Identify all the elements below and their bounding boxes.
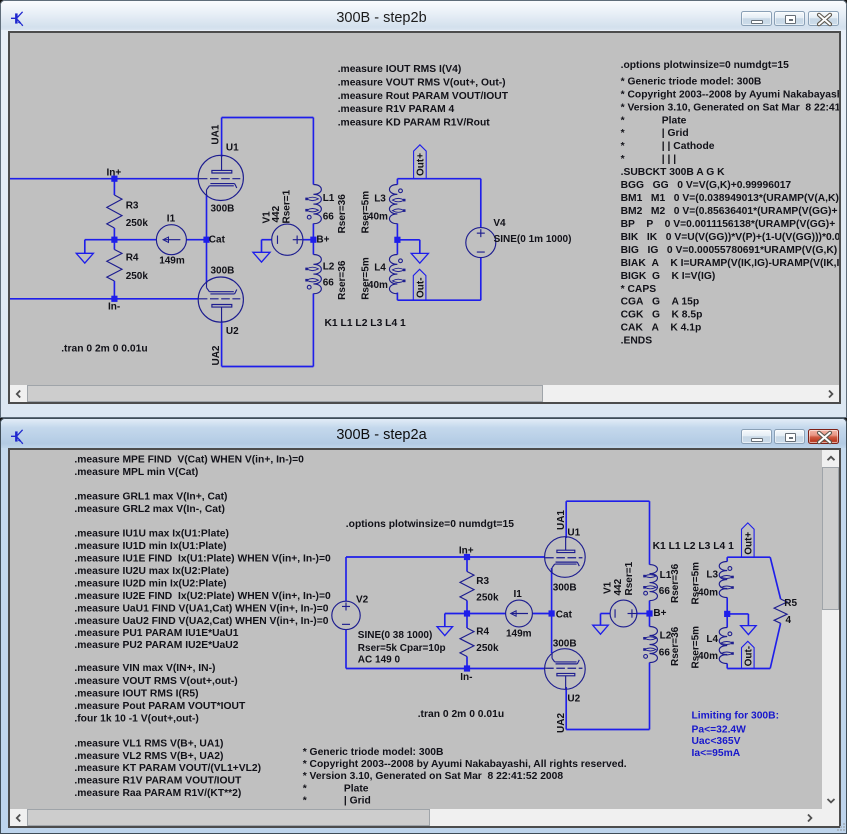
wire R3 bottom lead	[113, 228, 115, 240]
svg-text:Rser=5m: Rser=5m	[361, 257, 372, 300]
svg-text:UA2: UA2	[211, 345, 222, 365]
svg-text:.measure VOUT RMS V(out+,out-): .measure VOUT RMS V(out+,out-)	[74, 676, 237, 687]
svg-text:Rser=36: Rser=36	[670, 626, 681, 666]
wire rail down to L1 2	[649, 501, 651, 564]
wire rail down to L1	[312, 118, 314, 185]
svg-text:Rser=1: Rser=1	[281, 189, 292, 223]
inductor L4	[389, 255, 397, 294]
wire V2 top lead	[345, 557, 347, 601]
svg-text:UA1: UA1	[211, 124, 222, 144]
svg-text:.options plotwinsize=0 numdgt=: .options plotwinsize=0 numdgt=15	[621, 60, 789, 71]
svg-text:Cat: Cat	[556, 610, 573, 621]
core marks L3 2	[721, 576, 733, 579]
inductor L3 2	[719, 562, 727, 598]
wire R4 bottom lead 2	[466, 657, 468, 669]
svg-text:149m: 149m	[506, 629, 532, 640]
svg-text:.measure Rout PARAM VOUT/IOUT: .measure Rout PARAM VOUT/IOUT	[338, 91, 509, 102]
svg-text:V4: V4	[493, 218, 506, 229]
wire R5 bottom diagonal	[770, 623, 780, 668]
svg-text:.measure KT PARAM VOUT/(VL1+VL: .measure KT PARAM VOUT/(VL1+VL2)	[74, 763, 261, 774]
wire L3 bottom lead	[396, 224, 398, 240]
wire L3 bottom lead 2	[726, 598, 728, 614]
inductor L2 2	[650, 627, 658, 663]
svg-text:Out+: Out+	[743, 532, 754, 555]
svg-text:R5: R5	[784, 598, 797, 609]
grid (dashed)	[545, 667, 582, 669]
wire B+ to L2	[312, 240, 314, 255]
svg-text:Rser=36: Rser=36	[337, 260, 348, 300]
svg-text:Rser=36: Rser=36	[670, 563, 681, 603]
svg-text:U2: U2	[567, 693, 580, 704]
triode U1 (300B)	[198, 155, 243, 200]
svg-text:AC 149 0: AC 149 0	[358, 655, 401, 666]
svg-text:BIAK A K I=URAMP(V(IK,IG)-: BIAK A K I=URAMP(V(IK,IG)-URAMP(V(IK,IG	[621, 258, 839, 269]
svg-text:I1: I1	[514, 589, 523, 600]
svg-text:CAK A K 4.1p: CAK A K 4.1p	[621, 323, 702, 334]
svg-text:U2: U2	[226, 326, 239, 337]
svg-text:.measure IU1E FIND Ix(U1:Plat: .measure IU1E FIND Ix(U1:Plate) WHEN V(i…	[74, 554, 331, 565]
svg-text:Rser=36: Rser=36	[337, 194, 348, 234]
wire L4 bottom lead 2	[726, 664, 728, 669]
wire B+ to L2 2	[649, 614, 651, 627]
svg-text:Rser=5m: Rser=5m	[690, 562, 701, 605]
svg-text:* | | Cathode: * | | Cathode	[621, 141, 715, 152]
voltage source V4	[466, 228, 496, 258]
cathode	[210, 183, 234, 185]
phase dot L1 2	[644, 591, 648, 595]
grid (dashed)	[199, 298, 241, 300]
svg-text:BM1 M1 0 V=(0.038949013*(U: BM1 M1 0 V=(0.038949013*(URAMP(V(A,K))	[621, 193, 839, 204]
wire I1 to Cat 2	[532, 613, 551, 615]
wire V4 top lead	[480, 179, 482, 228]
core marks L1 2	[645, 575, 657, 578]
svg-text:B+: B+	[653, 608, 666, 619]
triode U2 (300B)	[198, 277, 243, 322]
svg-text:UA1: UA1	[556, 510, 567, 530]
svg-text:.options plotwinsize=0 numdgt=: .options plotwinsize=0 numdgt=15	[346, 519, 514, 530]
wire V1 ground stub 2	[600, 614, 602, 626]
svg-text:BIK IK 0 V=U(V(GG))*V(P)+(: BIK IK 0 V=U(V(GG))*V(P)+(1-U(V(GG)))*0.…	[621, 232, 839, 243]
net flag Out- 2	[742, 641, 755, 668]
svg-text:.measure Pout PARAM VOUT*IOUT: .measure Pout PARAM VOUT*IOUT	[74, 701, 246, 712]
svg-text:Ia<=95mA: Ia<=95mA	[692, 748, 741, 759]
svg-text:* Plate: * Plate	[303, 783, 369, 794]
svg-text:* Version 3.10, Generated on S: * Version 3.10, Generated on Sat Mar 8 2…	[621, 102, 839, 113]
svg-text:.measure VL1 RMS V(B+, UA1): .measure VL1 RMS V(B+, UA1)	[74, 738, 223, 749]
wire bottom rail 2	[566, 729, 649, 731]
resistor R5	[774, 599, 787, 623]
wire R3 bottom lead 2	[466, 601, 468, 614]
svg-text:300B: 300B	[211, 204, 235, 215]
wire U1 cathode to Cat	[206, 195, 208, 240]
svg-text:66: 66	[323, 212, 335, 223]
svg-text:250k: 250k	[126, 218, 149, 229]
svg-text:In+: In+	[459, 545, 474, 556]
wire out top rail	[397, 178, 480, 180]
svg-text:Out+: Out+	[416, 153, 427, 176]
node L3/L4 2	[724, 611, 730, 617]
phase dot L1	[307, 215, 311, 219]
svg-text:V1: V1	[603, 581, 614, 594]
wire mid to ground stub 2	[445, 613, 467, 615]
svg-text:.measure VIN max V(IN+, IN-): .measure VIN max V(IN+, IN-)	[74, 663, 215, 674]
phase dot L2 2	[644, 655, 648, 659]
svg-text:K1 L1 L2 L3 L4 1: K1 L1 L2 L3 L4 1	[325, 318, 407, 329]
scrollbar horizontal window1	[10, 385, 839, 402]
svg-text:.measure IU1U max Ix(U1:Plate): .measure IU1U max Ix(U1:Plate)	[74, 529, 229, 540]
svg-text:BIG IG 0 V=0.00055780691*U: BIG IG 0 V=0.00055780691*URAMP(V(G,K)	[621, 245, 838, 256]
wire out ground stub	[419, 240, 421, 254]
svg-text:250k: 250k	[476, 593, 499, 604]
svg-text:CGA G A 15p: CGA G A 15p	[621, 297, 700, 308]
wire ground stub left	[84, 240, 86, 254]
ground left	[76, 253, 93, 263]
phase dot L4	[399, 259, 403, 263]
svg-text:UA2: UA2	[556, 713, 567, 733]
svg-text:* Generic triode model: 300B: * Generic triode model: 300B	[621, 76, 762, 87]
svg-text:66: 66	[323, 278, 335, 289]
node Cat 2	[549, 610, 555, 616]
svg-text:Out-: Out-	[415, 277, 426, 298]
svg-text:.measure MPE FIND V(Cat) WHEN: .measure MPE FIND V(Cat) WHEN V(in+, In-…	[74, 454, 304, 465]
svg-text:SINE(0 38 1000): SINE(0 38 1000)	[358, 630, 433, 641]
wire L3L4 stub 2	[727, 613, 748, 615]
svg-text:149m: 149m	[159, 255, 185, 266]
svg-text:U1: U1	[567, 527, 580, 538]
svg-text:Rser=5m: Rser=5m	[690, 626, 701, 669]
wire L2 down to rail 2	[649, 663, 651, 730]
core marks L1	[307, 197, 319, 200]
svg-text:.measure IOUT RMS I(V4): .measure IOUT RMS I(V4)	[338, 64, 462, 75]
svg-text:Rser=1: Rser=1	[624, 561, 635, 595]
inductor L3	[389, 185, 397, 224]
svg-text:Uac<365V: Uac<365V	[692, 736, 741, 747]
wire U2 plate down	[221, 321, 223, 367]
wire V1 left lead 2	[601, 613, 611, 615]
ground out 2	[741, 626, 757, 635]
wire R5 top diagonal	[770, 557, 780, 599]
svg-text:L3: L3	[706, 569, 718, 580]
svg-text:442: 442	[613, 578, 624, 595]
net flag Out+	[414, 145, 427, 179]
wire V1 right lead	[303, 239, 313, 241]
svg-text:.tran 0 2m 0 0.01u: .tran 0 2m 0 0.01u	[61, 343, 147, 354]
wire R3 top lead	[113, 179, 115, 195]
wire out bottom rail	[397, 299, 480, 301]
wire L4 bottom lead	[396, 293, 398, 301]
svg-text:BIGK G K I=V(IG): BIGK G K I=V(IG)	[621, 271, 716, 282]
wire V2 bottom lead	[345, 630, 347, 669]
voltage source V1	[272, 224, 303, 255]
svg-text:BM2 M2 0 V=(0.85636401*(UR: BM2 M2 0 V=(0.85636401*(URAMP(V(GG)+	[621, 206, 838, 217]
cathode	[210, 293, 234, 295]
ground V1 2	[593, 625, 609, 634]
wire U1 cathode to Cat 2	[551, 568, 553, 614]
svg-text:L1: L1	[323, 193, 335, 204]
wire V1 right lead 2	[637, 613, 650, 615]
svg-text:Cat: Cat	[209, 234, 226, 245]
node In- junction	[111, 296, 117, 302]
wire Cat to U2 cathode	[206, 240, 208, 283]
svg-text:SINE(0 1m 1000): SINE(0 1m 1000)	[494, 234, 572, 245]
inductor L4 2	[719, 628, 727, 664]
svg-text:.measure KD PARAM R1V/Rout: .measure KD PARAM R1V/Rout	[338, 118, 491, 129]
svg-text:R4: R4	[476, 627, 489, 638]
wire U2 plate down 2	[565, 687, 567, 730]
core marks L4	[392, 268, 404, 271]
svg-text:V2: V2	[356, 595, 369, 606]
svg-text:.measure UaU2 FIND V(UA2,Cat): .measure UaU2 FIND V(UA2,Cat) WHEN V(in+…	[74, 616, 328, 627]
svg-text:.measure Raa PARAM R1V/(KT**2): .measure Raa PARAM R1V/(KT**2)	[74, 788, 241, 799]
svg-text:Rser=5m: Rser=5m	[361, 191, 372, 234]
svg-text:250k: 250k	[476, 643, 499, 654]
node mid 2	[464, 610, 470, 616]
svg-text:.measure R1V PARAM VOUT/IOUT: .measure R1V PARAM VOUT/IOUT	[74, 776, 242, 787]
svg-text:* Copyright 2003--2008 by Ayum: * Copyright 2003--2008 by Ayumi Nakabaya…	[621, 89, 839, 100]
ground output	[411, 253, 428, 263]
wire mid to I1 2	[467, 613, 506, 615]
inductor L1	[313, 185, 321, 224]
wire out bottom rail 2	[727, 668, 770, 670]
node Cat junction	[203, 237, 209, 243]
svg-text:.measure IOUT RMS I(R5): .measure IOUT RMS I(R5)	[74, 688, 198, 699]
scrollbar corner + resize grip	[822, 809, 839, 826]
svg-text:.four 1k 10 -1 V(out+,out-): .four 1k 10 -1 V(out+,out-)	[74, 714, 198, 725]
wire In- rail	[10, 298, 199, 300]
wire R4 top lead 2	[466, 614, 468, 629]
svg-text:BGG GG 0 V=V(G,K)+0.999960: BGG GG 0 V=V(G,K)+0.99996017	[621, 180, 792, 191]
inductor L1 2	[650, 565, 658, 601]
wire R4 top lead	[113, 240, 115, 250]
window 1: LTspice schematic "300B - step2b" (inactive)	[0, 0, 847, 418]
net flag Out-	[413, 269, 426, 300]
wire Cat to U2 cathode 2	[551, 614, 553, 654]
node In- 2	[464, 665, 470, 671]
core marks L3	[392, 198, 404, 201]
svg-text:L3: L3	[374, 194, 386, 205]
wire L4 top lead 2	[726, 614, 728, 628]
wire top rail 2	[566, 500, 649, 502]
svg-text:.measure IU2D min Ix(U2:Plate): .measure IU2D min Ix(U2:Plate)	[74, 579, 226, 590]
core marks L2	[307, 267, 319, 270]
cathode	[556, 663, 578, 665]
svg-text:L2: L2	[323, 261, 335, 272]
wire I1 to Cat node	[186, 239, 206, 241]
svg-text:66: 66	[659, 586, 671, 597]
ground mid 2	[437, 627, 453, 636]
ground V1	[253, 252, 270, 262]
voltage source V1 2	[610, 600, 637, 627]
node mid junction (ground/R3/R4)	[111, 237, 117, 243]
wire out top rail 2	[727, 556, 770, 558]
svg-text:.measure VOUT RMS V(out+, Out-: .measure VOUT RMS V(out+, Out-)	[338, 77, 506, 88]
scrollbar vertical window2	[822, 450, 839, 809]
phase dot L4 2	[728, 632, 732, 636]
resistor R3 2	[460, 572, 474, 601]
inductor L2	[313, 255, 321, 294]
node L3/L4 junction	[394, 237, 400, 243]
svg-text:.measure R1V PARAM 4: .measure R1V PARAM 4	[338, 104, 455, 115]
node B+ 2	[646, 610, 652, 616]
svg-text:4: 4	[786, 615, 792, 626]
svg-text:.tran 0 2m 0 0.01u: .tran 0 2m 0 0.01u	[418, 709, 504, 720]
svg-text:.measure MPL min V(Cat): .measure MPL min V(Cat)	[74, 467, 198, 478]
svg-text:* Copyright 2003--2008 by Ayum: * Copyright 2003--2008 by Ayumi Nakabaya…	[303, 759, 627, 770]
resistor R4 2	[460, 628, 474, 657]
svg-text:In-: In-	[460, 672, 472, 683]
svg-text:L4: L4	[706, 634, 718, 645]
svg-text:.measure UaU1 FIND V(UA1,Cat): .measure UaU1 FIND V(UA1,Cat) WHEN V(in+…	[74, 603, 328, 614]
wire L2 down to rail	[312, 294, 314, 367]
wire top rail U1-L1	[222, 117, 314, 119]
node In+ 2	[464, 554, 470, 560]
svg-text:R3: R3	[126, 200, 139, 211]
grid (dashed)	[545, 557, 582, 559]
wire V4 bottom lead	[480, 258, 482, 301]
window 2: LTspice schematic "300B - step2a" (active)	[0, 418, 847, 834]
triode U2 2 (300B)	[545, 649, 586, 690]
svg-text:* Generic triode model: 300B: * Generic triode model: 300B	[303, 747, 444, 758]
svg-text:.measure IU2U max Ix(U2:Plate): .measure IU2U max Ix(U2:Plate)	[74, 566, 229, 577]
wire V1 ground stub	[261, 240, 263, 253]
svg-text:* CAPS: * CAPS	[621, 284, 657, 295]
phase dot L3	[399, 189, 403, 193]
wire R3 top lead 2	[466, 557, 468, 572]
wire ground stub down 2	[444, 614, 446, 627]
core marks L4 2	[721, 642, 733, 645]
node B+ junction	[310, 237, 316, 243]
svg-text:CGK G K 8.5p: CGK G K 8.5p	[621, 310, 703, 321]
net flag Out+ 2	[742, 523, 755, 557]
svg-text:Pa<=32.4W: Pa<=32.4W	[692, 725, 747, 736]
wire In+ rail 2	[346, 556, 545, 558]
svg-text:Out-: Out-	[743, 646, 754, 667]
wire U1 plate up 2	[565, 501, 567, 538]
wire out ground stub 2	[747, 614, 749, 626]
triode U1 2 (300B)	[545, 537, 586, 578]
phase dot L2	[307, 285, 311, 289]
resistor R3	[107, 195, 122, 228]
svg-text:.measure PU1 PARAM IU1E*UaU1: .measure PU1 PARAM IU1E*UaU1	[74, 628, 238, 639]
svg-text:300B: 300B	[553, 639, 577, 650]
wire L3 top lead	[396, 179, 398, 185]
svg-text:.measure IU1D min Ix(U1:Plate): .measure IU1D min Ix(U1:Plate)	[74, 541, 226, 552]
wire bottom rail U2-L2	[222, 366, 314, 368]
svg-text:300B: 300B	[211, 265, 235, 276]
svg-text:250k: 250k	[126, 271, 149, 282]
svg-text:300B: 300B	[553, 583, 577, 594]
voltage source V2	[332, 601, 360, 629]
svg-text:* Plate: * Plate	[621, 115, 687, 126]
wire In+ rail	[10, 178, 199, 180]
wire L4 top lead	[396, 240, 398, 255]
svg-text:BP P 0 V=0.0011156138*(U: BP P 0 V=0.0011156138*(URAMP(V(GG)+	[621, 219, 836, 230]
cathode	[556, 561, 578, 563]
node In+ junction	[111, 176, 117, 182]
svg-text:* | | |: * | | |	[621, 154, 677, 165]
svg-text:Rser=5k Cpar=10p: Rser=5k Cpar=10p	[358, 643, 446, 654]
svg-text:.measure PU2 PARAM IU2E*UaU2: .measure PU2 PARAM IU2E*UaU2	[74, 640, 238, 651]
wire ground rail to I1	[85, 239, 157, 241]
wire L3 top lead 2	[726, 557, 728, 561]
svg-text:U1: U1	[226, 142, 239, 153]
resistor R4	[107, 250, 122, 282]
svg-text:I1: I1	[167, 213, 176, 224]
svg-text:66: 66	[659, 648, 671, 659]
current source I1	[156, 225, 186, 255]
svg-text:Limiting for 300B:: Limiting for 300B:	[692, 711, 780, 722]
current source I1 2	[506, 600, 533, 627]
wire U1 plate up	[221, 118, 223, 158]
svg-text:* | Grid: * | Grid	[621, 128, 689, 139]
svg-text:.measure VL2 RMS V(B+, UA2): .measure VL2 RMS V(B+, UA2)	[74, 751, 223, 762]
wire R4 bottom lead	[113, 281, 115, 299]
svg-text:R4: R4	[126, 253, 139, 264]
wire L1 to B+	[312, 224, 314, 240]
svg-text:In+: In+	[107, 168, 122, 179]
svg-text:B+: B+	[316, 234, 329, 245]
grid (dashed)	[199, 178, 241, 180]
scrollbar horizontal window2	[10, 809, 822, 826]
svg-text:K1 L1 L2 L3 L4 1: K1 L1 L2 L3 L4 1	[653, 541, 735, 552]
svg-text:* Version 3.10, Generated on S: * Version 3.10, Generated on Sat Mar 8 2…	[303, 771, 564, 782]
wire In- rail 2	[346, 668, 545, 670]
wire L3L4 node stub	[397, 239, 419, 241]
wire L1 to B+ 2	[649, 601, 651, 614]
core marks L2 2	[645, 637, 657, 640]
svg-text:In-: In-	[108, 302, 120, 313]
svg-text:.measure GRL2 max V(In-, Cat): .measure GRL2 max V(In-, Cat)	[74, 504, 225, 515]
svg-text:.SUBCKT 300B A G K: .SUBCKT 300B A G K	[621, 167, 726, 178]
svg-text:.measure IU2E FIND Ix(U2:Plat: .measure IU2E FIND Ix(U2:Plate) WHEN V(i…	[74, 591, 331, 602]
svg-text:L4: L4	[374, 262, 386, 273]
phase dot L3 2	[728, 567, 732, 571]
svg-text:* | Grid: * | Grid	[303, 796, 371, 807]
svg-text:R3: R3	[476, 576, 489, 587]
svg-text:.ENDS: .ENDS	[621, 336, 653, 347]
svg-text:.measure GRL1 max V(In+, Cat): .measure GRL1 max V(In+, Cat)	[74, 491, 227, 502]
wire V1 left lead	[262, 239, 272, 241]
